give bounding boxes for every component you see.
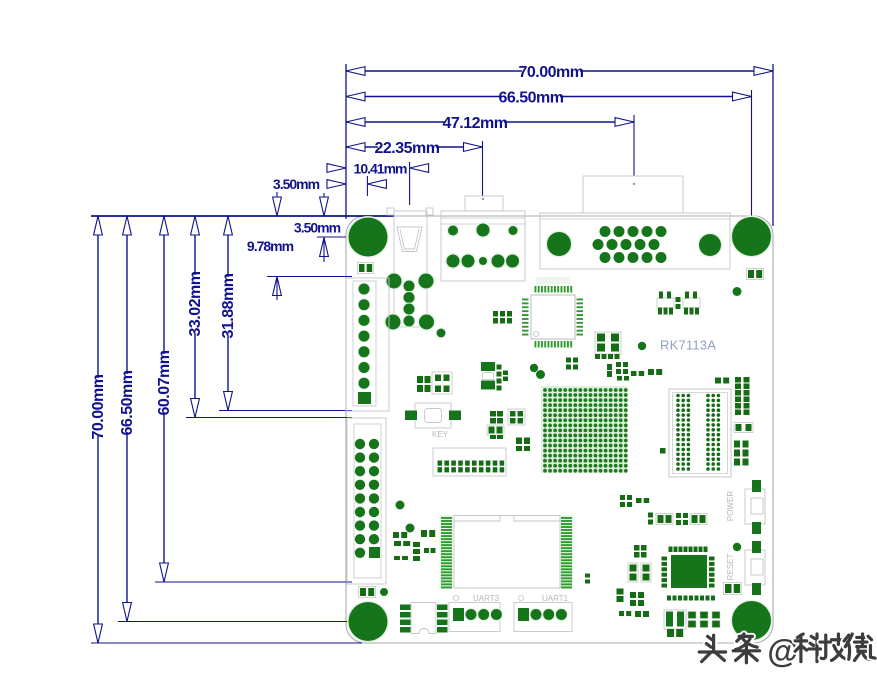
svg-text:3.50mm: 3.50mm: [273, 176, 320, 192]
svg-text:RESET: RESET: [726, 554, 735, 581]
svg-text:10.41mm: 10.41mm: [354, 161, 407, 177]
svg-text:33.02mm: 33.02mm: [187, 271, 204, 336]
svg-text:70.00mm: 70.00mm: [90, 374, 107, 439]
svg-text:KEY: KEY: [432, 430, 449, 439]
svg-text:UART1: UART1: [542, 594, 569, 603]
svg-text:RK7113A: RK7113A: [660, 338, 716, 353]
svg-text:22.35mm: 22.35mm: [375, 140, 440, 157]
svg-text:60.07mm: 60.07mm: [156, 350, 173, 415]
svg-text:70.00mm: 70.00mm: [519, 64, 584, 81]
svg-text:UART3: UART3: [473, 594, 500, 603]
svg-text:66.50mm: 66.50mm: [499, 89, 564, 106]
svg-text:9.78mm: 9.78mm: [247, 238, 294, 254]
svg-text:66.50mm: 66.50mm: [119, 370, 136, 435]
svg-text:31.88mm: 31.88mm: [220, 273, 237, 338]
svg-text:3.50mm: 3.50mm: [294, 220, 341, 236]
svg-text:47.12mm: 47.12mm: [443, 115, 508, 132]
svg-text:POWER: POWER: [726, 491, 735, 521]
